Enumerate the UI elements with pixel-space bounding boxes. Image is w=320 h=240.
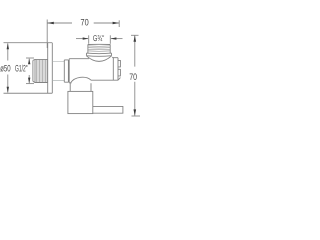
cap knurl tab upper: [118, 60, 120, 67]
arrowhead right of G3/4: [111, 37, 117, 39]
chrome cap: [113, 58, 118, 80]
inlet thread end face: [32, 60, 34, 81]
G3/4 dimension leader right: [111, 38, 123, 40]
arrowhead left of 70 horizontal: [47, 22, 54, 25]
G3/4 extension line left: [88, 35, 90, 44]
G3/4 extension line right: [109, 35, 111, 44]
union nut: [64, 59, 69, 83]
G1/2 extension line top: [26, 57, 34, 59]
inlet thread chamfer: [33, 59, 35, 82]
valve body bottom edge right: [91, 79, 118, 81]
inlet pipe: [52, 61, 64, 80]
dia50 extension line bottom: [4, 92, 53, 94]
outlet collar flange: [86, 53, 111, 56]
label G3/4 inch: [93, 35, 104, 41]
arrowhead bottom of 70 vertical: [134, 109, 137, 115]
dimension line 70 vertical: [134, 36, 136, 116]
inlet thread G1/2 block: [35, 59, 48, 82]
label G1/2 inch: [15, 65, 27, 72]
outlet thread G3/4 cylinder: [88, 44, 110, 53]
outlet thread crest lines: [88, 46, 110, 51]
extension tick right of top dimension: [118, 20, 120, 27]
inlet thread hatch lines: [37, 60, 48, 82]
arrowhead right of 70 horizontal: [113, 22, 120, 25]
cap bottom chamfer: [118, 78, 120, 81]
wall rosette plate: [48, 43, 53, 93]
body to neck fillet arch: [70, 77, 91, 83]
side spout outlet: [93, 106, 123, 113]
arrowhead bottom of G1/2: [28, 78, 30, 84]
cap knurl tab lower: [118, 69, 120, 76]
dia50 extension line top: [4, 42, 53, 44]
label 70 right: [130, 73, 137, 80]
arrowhead top of 70 vertical: [134, 35, 137, 41]
extension tick top of right dimension: [131, 34, 139, 36]
valve body bottom edge left: [69, 82, 71, 84]
G3/4 dimension leader left: [76, 38, 88, 40]
label dia50: [0, 65, 10, 72]
extension line left of top dimension: [46, 20, 48, 49]
G1/2 dimension line: [28, 59, 30, 84]
arrowhead bottom of dia50: [7, 87, 9, 93]
label 70 top: [81, 19, 89, 26]
arrowhead top of dia50: [7, 43, 9, 49]
dia50 dimension line: [7, 43, 9, 92]
dimension line 70 horizontal: [47, 22, 119, 24]
collar to cap transition: [112, 56, 113, 59]
arrowhead left of G3/4: [83, 37, 89, 39]
compression nut: [68, 91, 93, 113]
valve body top edge: [69, 58, 89, 60]
bonnet dome underside: [86, 56, 111, 62]
outlet neck edges: [70, 83, 91, 91]
G1/2 extension line bottom: [26, 83, 34, 85]
arrowhead top of G1/2: [28, 59, 30, 65]
extension tick bottom of right dimension: [132, 115, 141, 117]
